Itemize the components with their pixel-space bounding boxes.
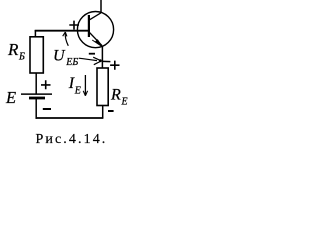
minus sign near RE bottom <box>108 110 114 112</box>
svg-text:I: I <box>68 75 75 92</box>
wire collector vertical <box>100 0 102 13</box>
transistor Q1 emitter arrowhead <box>95 39 102 46</box>
svg-text:U: U <box>53 48 66 65</box>
wire battery bottom lead <box>35 99 37 119</box>
wire RE bottom lead <box>102 106 104 119</box>
wire base horizontal <box>35 30 89 32</box>
arrow UEB to emitter node <box>79 58 97 60</box>
svg-text:R: R <box>110 87 121 104</box>
transistor Q1 base bar <box>88 15 90 37</box>
svg-text:ЕБ: ЕБ <box>65 57 78 68</box>
svg-text:R: R <box>7 40 19 59</box>
plus sign near RE top <box>110 61 119 70</box>
svg-text:E: E <box>5 88 16 107</box>
minus sign near emitter <box>89 53 95 55</box>
minus sign battery <box>43 108 51 110</box>
plus sign near base <box>69 21 79 30</box>
svg-text:Е: Е <box>121 97 128 108</box>
transistor Q1 circle <box>77 12 113 48</box>
arrow UEB up toward base wire <box>65 33 68 46</box>
battery E top plate <box>21 93 52 95</box>
svg-text:Рис.4.14.: Рис.4.14. <box>36 132 108 147</box>
resistor RE body <box>97 68 108 106</box>
svg-text:Е: Е <box>74 86 81 97</box>
battery E bottom plate <box>29 97 45 100</box>
wire emitter vertical <box>101 46 103 69</box>
transistor Q1 collector diagonal <box>90 13 101 20</box>
arrow IE current down <box>84 75 86 95</box>
wire RB top lead <box>34 30 36 37</box>
wire bottom horizontal <box>36 117 104 119</box>
transistor Q1 emitter diagonal <box>90 33 103 46</box>
svg-text:Б: Б <box>18 52 25 63</box>
resistor RB body <box>30 37 43 73</box>
wire RB bottom lead <box>35 73 37 94</box>
plus sign battery <box>41 80 51 89</box>
